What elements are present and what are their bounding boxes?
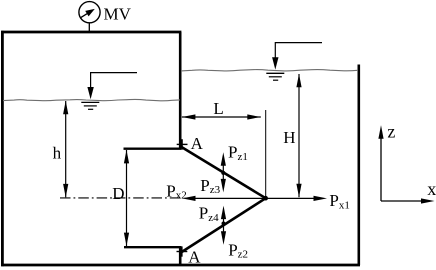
bottom plate <box>124 246 181 248</box>
force Pz1 <box>221 152 226 173</box>
water line left <box>3 99 180 100</box>
svg-text:z: z <box>387 121 395 141</box>
dim H <box>296 74 301 198</box>
water line right <box>181 70 358 71</box>
dot on top diagonal <box>221 171 225 175</box>
dim h <box>63 101 68 198</box>
svg-text:Pz3: Pz3 <box>200 176 220 196</box>
dot on bottom diagonal <box>222 222 226 226</box>
svg-text:H: H <box>283 128 295 147</box>
svg-text:h: h <box>53 143 62 162</box>
svg-text:Pz2: Pz2 <box>228 240 248 260</box>
svg-text:Pz4: Pz4 <box>199 204 219 224</box>
tank left wall <box>1 31 4 266</box>
cross point A bottom <box>177 246 188 256</box>
svg-text:A: A <box>191 134 204 153</box>
force Pz3 <box>221 173 226 192</box>
svg-text:MV: MV <box>104 4 132 23</box>
gauge MV circle <box>79 2 100 23</box>
force Pz4 <box>221 206 226 224</box>
dim L <box>182 114 261 119</box>
tank top wall <box>1 31 181 34</box>
cross point A top <box>177 139 188 150</box>
inner wall lower stub <box>179 247 182 265</box>
vertex dot <box>263 196 268 201</box>
level mark left <box>81 73 137 110</box>
svg-text:Px2: Px2 <box>166 181 186 201</box>
cone top diagonal <box>182 147 266 198</box>
extension line vertex <box>265 110 267 197</box>
dim D <box>124 150 129 246</box>
svg-text:Px1: Px1 <box>329 191 349 211</box>
centerline <box>60 197 182 199</box>
svg-text:x: x <box>427 179 436 199</box>
axis z <box>378 125 383 201</box>
right wall <box>357 65 360 266</box>
svg-text:D: D <box>112 184 124 203</box>
gauge needle <box>81 9 95 18</box>
svg-text:A: A <box>188 248 201 267</box>
svg-text:L: L <box>213 99 223 118</box>
force Px2 <box>182 196 266 201</box>
cone bottom diagonal <box>182 198 266 252</box>
inner wall upper <box>179 32 182 148</box>
svg-text:Pz1: Pz1 <box>228 143 248 163</box>
tank bottom wall <box>1 264 360 267</box>
level mark right <box>266 43 322 81</box>
force Pz2 <box>221 224 226 245</box>
gauge stem <box>88 23 90 33</box>
axis x <box>381 198 435 203</box>
top plate <box>124 147 182 149</box>
force Px1 <box>266 196 327 201</box>
